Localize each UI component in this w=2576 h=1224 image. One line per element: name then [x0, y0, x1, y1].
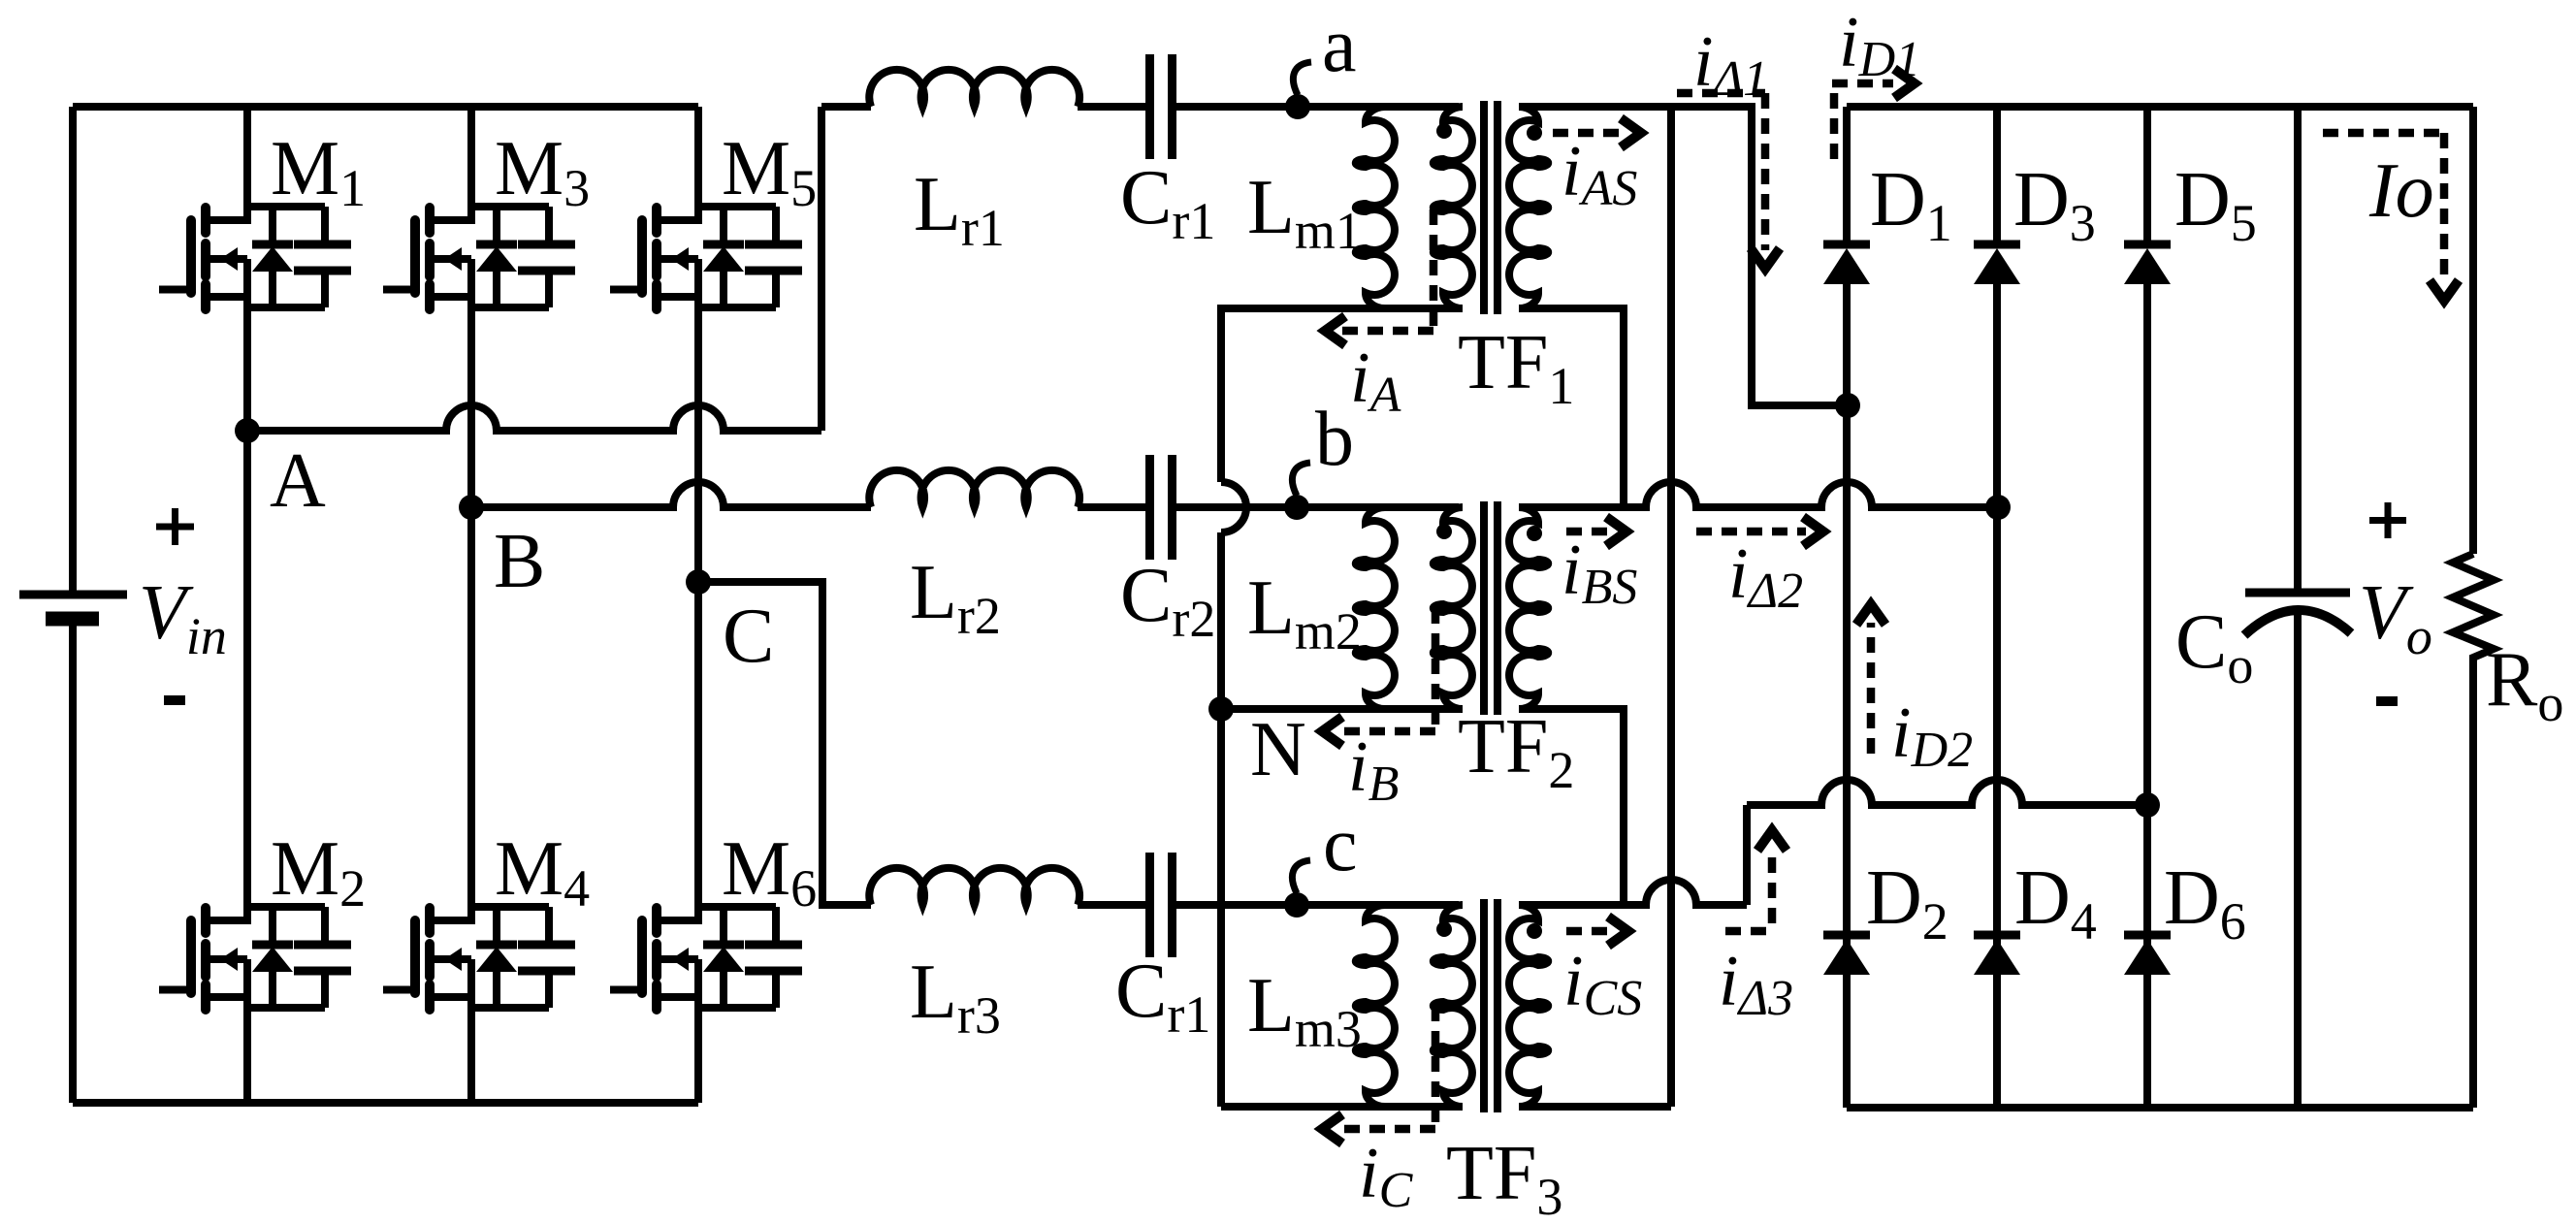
- capacitor Cr1: [1150, 54, 1173, 159]
- current arrow iDelta3: [1725, 848, 1772, 931]
- wire TF3 primary bottom: [1221, 1103, 1463, 1111]
- wire Lr2 to Cr2: [1078, 503, 1150, 511]
- wire phase B (node B to Lr2, hops leg C): [471, 482, 871, 507]
- svg-text:B: B: [494, 519, 545, 604]
- node leg1 mid: [1835, 393, 1860, 418]
- wire TF2 secondary bottom to delta link: [1519, 709, 1624, 905]
- wire phase A top run: [821, 103, 871, 111]
- capacitor Co: [2294, 107, 2302, 593]
- current arrow iB: [1337, 608, 1435, 731]
- wire phase C (node C right then down to Lr3): [698, 582, 871, 905]
- wire leg A upper (drain M1): [243, 107, 251, 224]
- diode D6: [2124, 931, 2171, 940]
- wire delta vertical (TF1 top tap down to TF3 secondary bottom): [1667, 107, 1675, 1107]
- label + (Vin): [156, 508, 194, 545]
- wire Cr2 to node b and TF2 primary: [1173, 503, 1460, 511]
- transformer TF1 primary winding: [1433, 107, 1472, 308]
- wire TF3 secondary top to rectifier leg 3 (hop, corner up): [1519, 880, 1747, 905]
- current arrow Io: [2323, 133, 2444, 282]
- transistor M4: [383, 907, 575, 1010]
- node A: [235, 418, 260, 443]
- capacitor Cr2: [1150, 455, 1173, 560]
- svg-text:a: a: [1322, 3, 1357, 88]
- transformer TF1 magnetizing inductor Lm1: [1356, 107, 1395, 308]
- wire Lr1 to Cr1: [1078, 103, 1150, 111]
- wire hop of TF1 return over b line: [1221, 482, 1246, 532]
- transformer TF1 secondary winding: [1509, 107, 1548, 308]
- current arrow iDelta2: [1696, 528, 1806, 536]
- wire rectifier leg 3: [2143, 107, 2151, 244]
- wire N to TF3 return: [1217, 709, 1225, 1107]
- transistor M3: [383, 207, 575, 309]
- wire TF2 primary return (N wire): [1221, 705, 1463, 713]
- diode D4: [1974, 931, 2020, 940]
- label - (Vo): [2376, 696, 2398, 706]
- wire rectifier leg 2: [1993, 107, 2001, 244]
- wire Cr1 to node c and TF3 primary: [1173, 901, 1460, 909]
- wire leg A lower: [243, 1008, 251, 1103]
- transistor M5: [610, 207, 802, 309]
- current arrow iD2: [1867, 623, 1876, 754]
- transformer TF2 magnetizing inductor Lm2: [1356, 507, 1395, 709]
- transformer TF3 magnetizing inductor Lm3: [1356, 905, 1395, 1107]
- wire top rail (Vin+ to bridge legs): [73, 103, 698, 111]
- wire leg C lower: [694, 1008, 702, 1103]
- transformer TF3 secondary winding: [1509, 905, 1548, 1107]
- resistor Ro: [2469, 107, 2477, 554]
- wire Lr3 to Cr1(3): [1078, 901, 1150, 909]
- inductor Lr1: [869, 70, 1079, 107]
- node N: [1208, 696, 1234, 722]
- inductor Lr2: [869, 470, 1079, 507]
- wire TF2 secondary top to rectifier leg 2 (hops two verticals): [1519, 482, 1997, 507]
- transistor M1: [159, 207, 351, 309]
- wire delta tap 3 run (hops legs 1 and 2): [1747, 780, 2147, 805]
- label + (Vo): [2369, 502, 2406, 538]
- current arrow iAS: [1553, 129, 1622, 138]
- label - (Vin): [164, 695, 185, 705]
- diode D5: [2124, 241, 2171, 249]
- transformer TF1 polarity dots: [1436, 123, 1452, 139]
- wire TF1 primary return (bottom to N): [1221, 308, 1463, 709]
- current arrow iA: [1340, 209, 1433, 331]
- wire rectifier leg 1: [1843, 107, 1851, 244]
- transistor M2: [159, 907, 351, 1010]
- node B: [459, 495, 484, 520]
- transformer TF3 polarity dots: [1436, 921, 1452, 937]
- node C: [686, 569, 711, 595]
- node leg2 mid: [1985, 495, 2011, 520]
- svg-text:C: C: [723, 594, 774, 679]
- svg-text:A: A: [270, 438, 326, 524]
- diode D1: [1823, 241, 1870, 249]
- current arrow iDelta1: [1677, 93, 1765, 250]
- transformer TF3 primary winding: [1433, 905, 1472, 1107]
- transistor M6: [610, 907, 802, 1010]
- node c: [1284, 892, 1309, 918]
- transformer TF2 primary winding: [1433, 507, 1472, 709]
- wire TF1 secondary top to rectifier leg 1: [1519, 107, 1847, 405]
- transformer TF2 polarity dots: [1436, 524, 1452, 539]
- capacitor Cr1 (third phase): [1150, 853, 1173, 957]
- wire bottom rail (Vin- to bridge legs): [73, 1099, 698, 1107]
- battery Vin: [19, 107, 127, 1103]
- current arrow iD1: [1832, 83, 1893, 159]
- svg-text:b: b: [1315, 397, 1354, 482]
- svg-text:N: N: [1250, 707, 1306, 792]
- wire phase A riser: [818, 107, 825, 431]
- node a: [1285, 94, 1310, 119]
- transformer TF2 core: [1480, 501, 1488, 715]
- svg-text:c: c: [1323, 802, 1358, 887]
- wire TF1 secondary bottom to delta link: [1519, 308, 1624, 507]
- current arrow iCS: [1566, 927, 1610, 936]
- wire TF3 secondary bottom to delta vertical: [1519, 1103, 1671, 1111]
- current arrow iC: [1337, 1006, 1435, 1129]
- svg-text:Io: Io: [2368, 148, 2434, 234]
- diode D2: [1823, 931, 1870, 940]
- current arrow iBS: [1566, 528, 1608, 536]
- inductor Lr3: [869, 868, 1079, 905]
- diode D3: [1974, 241, 2020, 249]
- node b: [1284, 495, 1309, 520]
- wire rectifier bottom rail: [1847, 1104, 2473, 1111]
- wire leg C upper (drain M5): [694, 107, 702, 224]
- wire leg B middle (node B): [467, 307, 475, 507]
- transformer TF2 secondary winding: [1509, 507, 1548, 709]
- wire Cr1 to node a and TF1 primary: [1173, 103, 1460, 111]
- wire leg A middle (node A): [243, 307, 251, 431]
- node leg3 mid: [2135, 792, 2160, 818]
- wire leg B upper (drain M3): [467, 107, 475, 224]
- wire rectifier top rail: [1847, 103, 2473, 111]
- transformer TF3 core: [1480, 899, 1488, 1112]
- wire leg B lower: [467, 1008, 475, 1103]
- wire leg C middle (node C): [694, 307, 702, 582]
- transformer TF1 core: [1480, 101, 1488, 314]
- wire phase A (node A to riser, hops legs B and C): [247, 405, 821, 431]
